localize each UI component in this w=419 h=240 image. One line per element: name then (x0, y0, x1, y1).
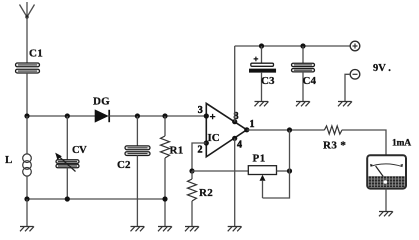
wire meter to ground (385, 189, 387, 212)
node C3 rail junction (259, 43, 264, 48)
wire pin 4 to ground (234, 138, 236, 226)
ground (meter) (379, 212, 393, 217)
ground (C3) (255, 102, 269, 107)
wire C4 to rail (302, 46, 304, 63)
svg-text:R1: R1 (170, 145, 184, 157)
wire C3 to rail (261, 46, 263, 63)
node output pin 1 (244, 127, 249, 132)
node R1 bottom junction (162, 196, 167, 201)
node R2 top junction (189, 168, 194, 173)
node pin 3 (204, 113, 209, 118)
wire output to R3 (247, 129, 325, 131)
svg-text:3: 3 (198, 105, 203, 116)
inductor L (23, 116, 32, 199)
node C2 top junction (135, 113, 140, 118)
wire L bottom to ground (26, 199, 28, 227)
node antenna/L junction (24, 113, 29, 118)
svg-text:IC: IC (208, 132, 220, 144)
svg-text:C1: C1 (29, 48, 43, 60)
wire top bus left segment (27, 115, 96, 117)
potentiometer P1 (192, 166, 277, 198)
meter M1 1mA (367, 155, 406, 188)
node output to P1 junction (287, 127, 292, 132)
ground (pin 4) (228, 227, 242, 232)
wire C1 to top bus (26, 73, 28, 116)
node CV bottom junction (65, 196, 70, 201)
resistor R1 (161, 116, 170, 227)
ground (R2) (185, 227, 199, 232)
svg-text:DG: DG (93, 96, 110, 108)
svg-text:1: 1 (250, 119, 255, 130)
wire supply rail (235, 45, 351, 47)
svg-text:9V .: 9V . (373, 63, 391, 74)
op-amp IC (206, 103, 247, 156)
svg-text:CV: CV (72, 145, 87, 156)
svg-text:C2: C2 (117, 159, 131, 171)
capacitor C3 (249, 63, 275, 101)
node P1 right junction (287, 168, 292, 173)
wire P1 wiper loop (263, 130, 290, 198)
svg-text:R3 *: R3 * (323, 139, 346, 151)
capacitor C2 (125, 116, 150, 227)
antenna (20, 2, 35, 19)
ground (left bus) (20, 227, 34, 232)
resistor R3 (324, 126, 342, 134)
plus sign C3 polarity (254, 57, 259, 62)
node C4 rail junction (300, 43, 305, 48)
variable capacitor CV (55, 116, 79, 199)
node pin 2 (204, 140, 209, 145)
svg-text:P1: P1 (253, 152, 266, 164)
ground (C2) (131, 227, 145, 232)
ground (R1) (158, 227, 172, 232)
svg-text:L: L (5, 154, 12, 166)
wire top bus right segment (109, 115, 206, 117)
capacitor C4 (292, 63, 315, 101)
svg-text:C4: C4 (303, 75, 317, 87)
node CV top junction (65, 113, 70, 118)
node R1 top junction (162, 113, 167, 118)
svg-text:1mA: 1mA (392, 138, 411, 148)
capacitor C1 (16, 63, 40, 73)
svg-text:R2: R2 (199, 187, 213, 199)
wire minus terminal to ground (345, 74, 350, 101)
battery minus terminal (350, 70, 360, 80)
wire antenna to C1 (26, 17, 28, 64)
node pin 8 (232, 119, 237, 124)
wire pin 2 to R2 node (192, 143, 206, 171)
svg-text:2: 2 (198, 145, 203, 156)
wire R3 to meter (342, 130, 386, 155)
ground (C4) (296, 102, 310, 107)
wire bottom bus (27, 198, 165, 200)
wire pin 8 riser to supply rail (234, 46, 236, 122)
plus sign non-inverting input (210, 114, 215, 119)
battery plus terminal (350, 41, 360, 51)
svg-text:4: 4 (237, 140, 242, 151)
svg-text:C3: C3 (261, 75, 275, 87)
ground (battery minus) (338, 102, 352, 107)
wire P1 right terminal (277, 170, 290, 172)
node L bottom junction (24, 196, 29, 201)
node pin 4 (232, 136, 237, 141)
diode DG (95, 110, 109, 122)
resistor R2 (188, 171, 197, 227)
